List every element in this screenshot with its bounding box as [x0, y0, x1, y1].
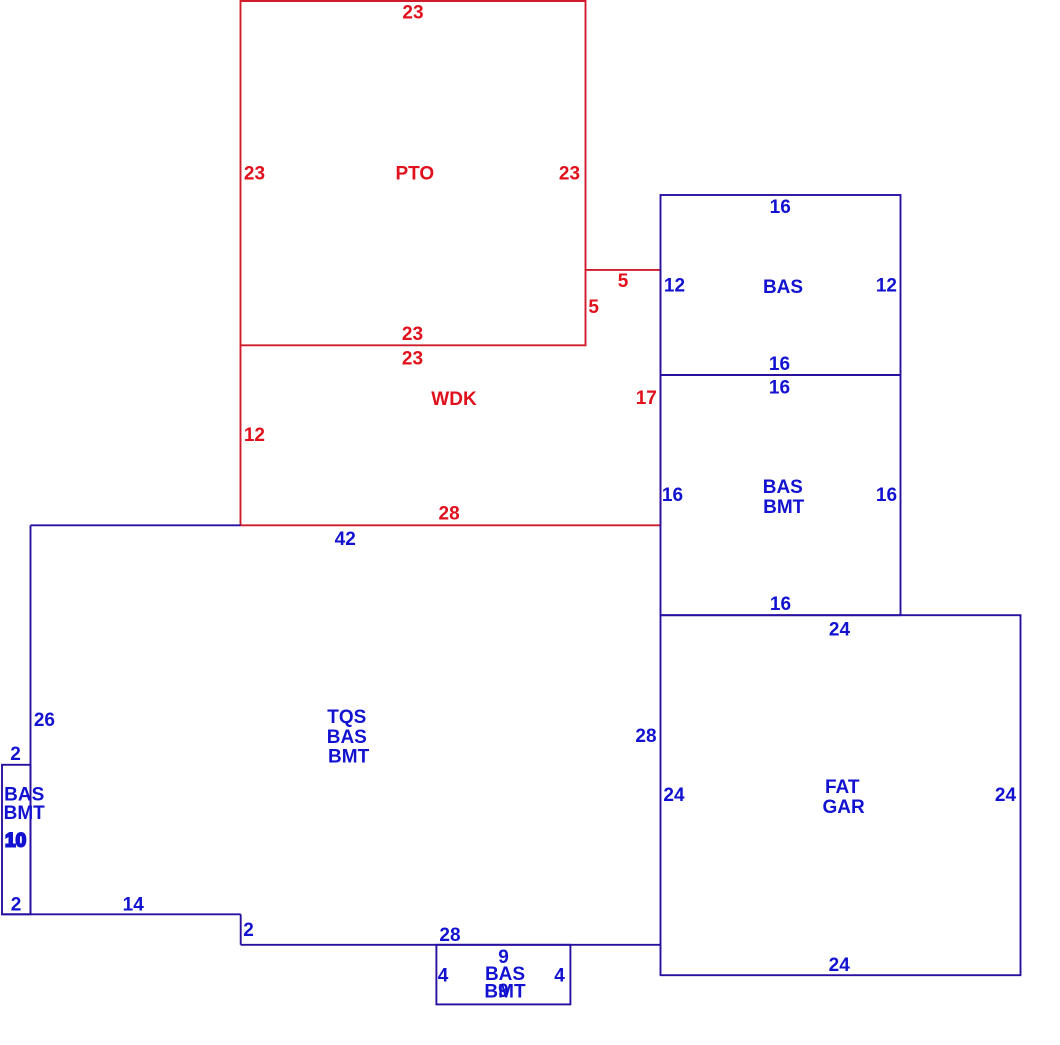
svg-text:23: 23: [559, 164, 580, 185]
svg-text:16: 16: [769, 377, 790, 398]
wire notch top segment (5): [586, 269, 661, 271]
node BAS BMT rectangle: [661, 375, 901, 615]
svg-text:10: 10: [5, 830, 26, 851]
svg-text:24: 24: [829, 620, 851, 641]
node BAS rectangle top right: [661, 195, 901, 375]
svg-text:28: 28: [635, 726, 656, 747]
svg-text:16: 16: [770, 197, 791, 218]
node bottom small box BAS BMT: [436, 945, 570, 1005]
svg-text:28: 28: [439, 925, 460, 946]
wire TQS left edge (26): [30, 525, 32, 914]
wire PTO outline (red patio rectangle): [241, 1, 586, 345]
wire TQS top blue segment: [31, 524, 241, 526]
svg-text:16: 16: [662, 485, 683, 506]
svg-text:24: 24: [995, 785, 1017, 806]
svg-text:16: 16: [769, 354, 790, 375]
svg-text:23: 23: [244, 164, 265, 185]
svg-text:BMT: BMT: [763, 497, 805, 518]
svg-text:12: 12: [244, 425, 265, 446]
svg-text:24: 24: [829, 955, 851, 976]
svg-text:2: 2: [10, 744, 21, 765]
svg-text:BAS: BAS: [763, 277, 803, 298]
svg-text:28: 28: [439, 504, 460, 525]
svg-text:BAS: BAS: [763, 477, 803, 498]
svg-text:BAS: BAS: [327, 727, 367, 748]
svg-text:9: 9: [498, 981, 509, 1002]
svg-text:12: 12: [664, 276, 685, 297]
svg-text:16: 16: [876, 485, 897, 506]
svg-text:5: 5: [618, 271, 629, 292]
wire WDK bottom edge (28): [241, 524, 661, 526]
svg-text:23: 23: [402, 2, 423, 23]
svg-text:BMT: BMT: [328, 746, 370, 767]
svg-text:2: 2: [243, 920, 254, 941]
svg-text:FAT: FAT: [825, 777, 860, 798]
svg-text:23: 23: [402, 324, 423, 345]
svg-text:17: 17: [636, 388, 657, 409]
svg-text:42: 42: [335, 529, 356, 550]
wire step down (2): [240, 914, 242, 945]
svg-text:14: 14: [123, 895, 145, 916]
svg-text:16: 16: [770, 594, 791, 615]
svg-text:GAR: GAR: [822, 797, 865, 818]
node FAT GAR rectangle: [661, 615, 1021, 975]
wire WDK right edge (17): [660, 270, 662, 525]
svg-text:12: 12: [876, 276, 897, 297]
svg-text:2: 2: [11, 895, 22, 916]
wire TQS/small-box bottom line: [2, 913, 241, 915]
svg-text:BMT: BMT: [4, 803, 46, 824]
svg-text:24: 24: [663, 785, 685, 806]
svg-text:4: 4: [438, 966, 449, 987]
wire WDK left edge: [240, 345, 242, 525]
svg-text:4: 4: [554, 966, 565, 987]
svg-text:26: 26: [34, 710, 55, 731]
svg-text:WDK: WDK: [431, 389, 477, 410]
wire TQS lower bottom edge (28): [241, 944, 661, 946]
node small left box BAS BMT 10: [2, 765, 31, 915]
svg-text:TQS: TQS: [327, 707, 366, 728]
svg-text:5: 5: [588, 297, 599, 318]
svg-text:PTO: PTO: [395, 163, 434, 184]
svg-text:23: 23: [402, 348, 423, 369]
